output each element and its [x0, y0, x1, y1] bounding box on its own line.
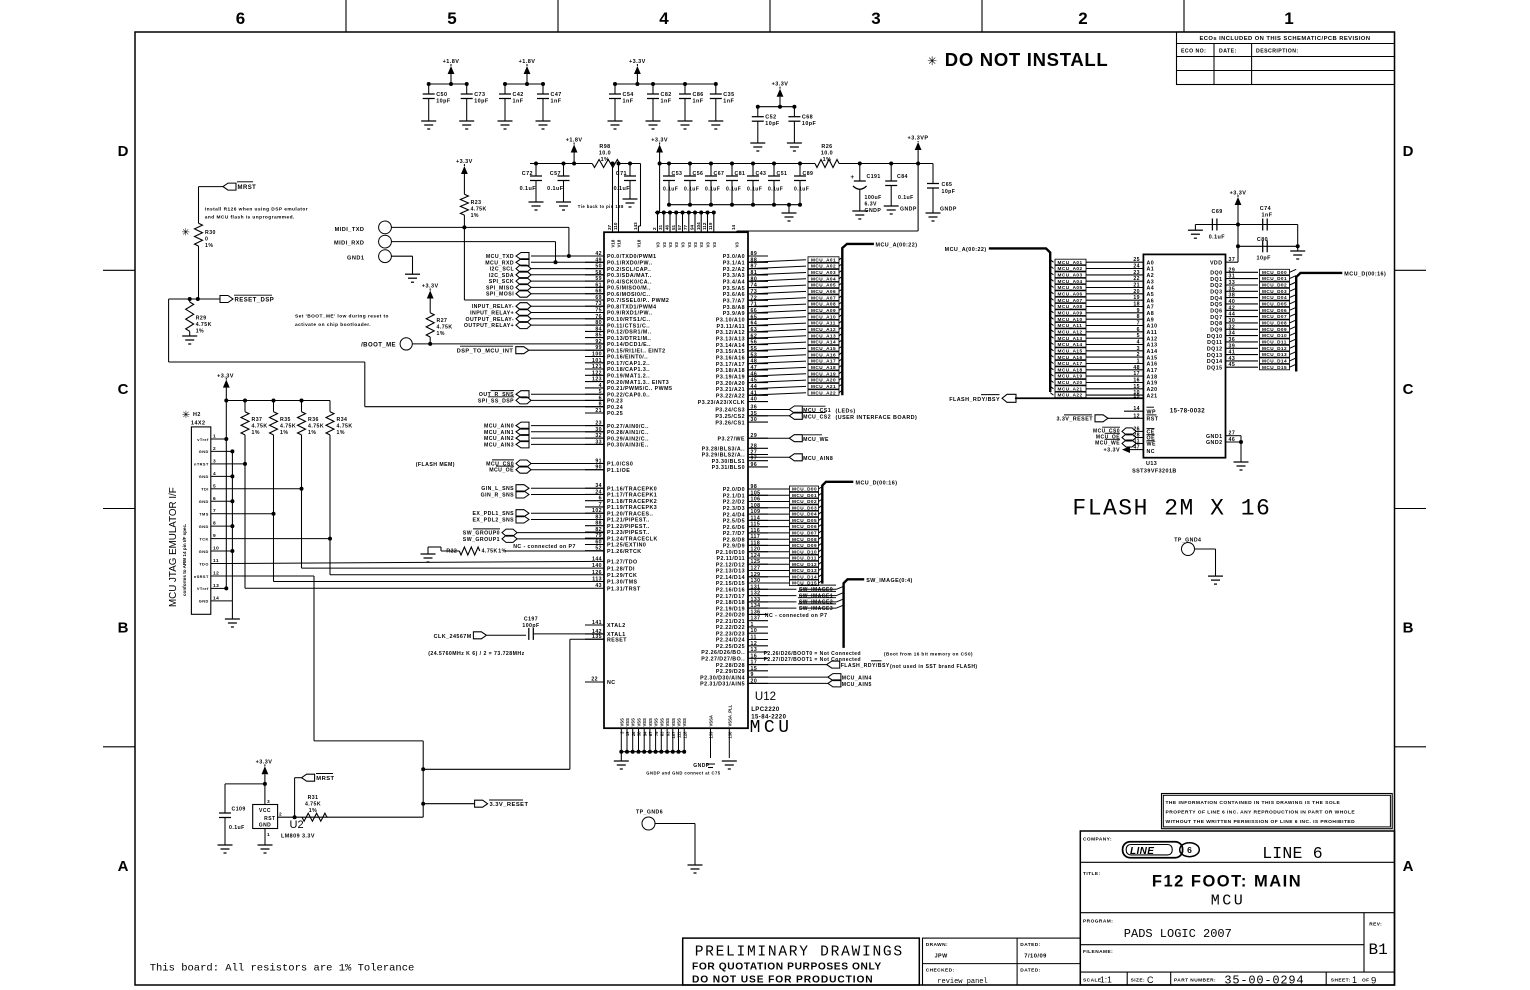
svg-text:46: 46 — [1229, 437, 1236, 443]
pin 113 P1.30/TMS — [592, 577, 637, 586]
pin 100 P0.16 — [585, 352, 648, 361]
svg-text:3.3V_RESET: 3.3V_RESET — [1056, 417, 1093, 423]
svg-text:P0.21/PWM5/C.. PWM5: P0.21/PWM5/C.. PWM5 — [607, 386, 672, 392]
wire TDI JTAG to MCU — [226, 435, 604, 568]
pin 74 P3.5/A5 — [723, 283, 768, 292]
svg-text:R27: R27 — [437, 318, 448, 324]
svg-text:DRAWN:: DRAWN: — [926, 942, 948, 948]
note install R126 — [205, 207, 308, 221]
net label MCU_D04 at MCU — [748, 511, 822, 517]
svg-text:GNDP: GNDP — [900, 207, 917, 213]
net label MCU_A03 — [808, 270, 842, 276]
svg-text:✳: ✳ — [182, 228, 190, 239]
power +3.3V rail with capacitor C52 and capacitor C68 — [750, 82, 816, 151]
svg-text:7: 7 — [599, 502, 602, 508]
net label MCU_A04 — [808, 276, 842, 282]
svg-text:B: B — [1403, 620, 1414, 637]
pin 122 P0.19 — [585, 370, 650, 379]
svg-text:MCU_A05: MCU_A05 — [811, 283, 836, 288]
svg-text:2: 2 — [1137, 352, 1140, 358]
svg-text:A4: A4 — [1147, 286, 1155, 292]
wire pull-up bus — [224, 399, 330, 403]
svg-text:0.1uF: 0.1uF — [229, 825, 245, 831]
pin 21 P0.25 — [585, 408, 623, 417]
svg-text:20: 20 — [1133, 289, 1140, 295]
wire TMS JTAG to MCU — [226, 435, 604, 582]
svg-text:DQ13: DQ13 — [1207, 353, 1223, 359]
net flag FLASH_RDY/BSY at MCU — [748, 661, 978, 670]
svg-text:MCU_OE: MCU_OE — [489, 468, 514, 474]
pin 15 A20 of U13 with net label MCU_A21 — [1050, 384, 1157, 393]
power +1.8V rail with capacitor C42 and capacitor C47 — [498, 59, 562, 129]
svg-text:1nF: 1nF — [661, 99, 672, 105]
svg-text:0.1uF: 0.1uF — [1209, 235, 1226, 241]
svg-text:MCU_D10: MCU_D10 — [1262, 333, 1287, 338]
svg-text:A15: A15 — [1147, 355, 1158, 361]
svg-text:19: 19 — [625, 731, 630, 736]
svg-text:MCU_RXD: MCU_RXD — [485, 260, 514, 266]
svg-text:P1.20/TRACES..: P1.20/TRACES.. — [607, 511, 653, 517]
connector pin GND1 — [347, 250, 391, 263]
pin 68 P0.6 — [585, 289, 650, 298]
svg-text:0.1uF: 0.1uF — [747, 187, 762, 193]
resistor R30 0 ohm with asterisk — [182, 187, 216, 299]
svg-text:OF: OF — [1362, 978, 1370, 984]
pin 33 P0.30 — [585, 439, 649, 448]
svg-text:1%: 1% — [280, 430, 288, 436]
svg-text:4.75K: 4.75K — [305, 801, 321, 807]
pin 11 WE of U13 with net flag MCU_WE — [1095, 439, 1156, 448]
svg-text:P0.25: P0.25 — [607, 411, 623, 417]
svg-text:MIDI_TXD: MIDI_TXD — [335, 227, 365, 233]
resistor R37 4.75K — [241, 401, 268, 437]
svg-text:A20: A20 — [1147, 387, 1158, 393]
wire TDO JTAG to MCU — [226, 561, 604, 563]
svg-text:MCU_A05: MCU_A05 — [1058, 285, 1083, 290]
svg-text:2: 2 — [279, 812, 282, 818]
pin 84 P0.12 — [585, 326, 652, 335]
svg-text:35: 35 — [1229, 286, 1236, 292]
svg-text:DQ3: DQ3 — [1210, 290, 1222, 296]
svg-text:44: 44 — [1229, 312, 1236, 318]
wire TCK JTAG to MCU — [226, 435, 604, 575]
svg-text:MCU_A11: MCU_A11 — [811, 321, 836, 326]
svg-text:P1.30/TMS: P1.30/TMS — [607, 580, 638, 586]
pin 41 DQ13 of U13 with net label MCU_D13 — [1207, 350, 1296, 359]
zone row letters — [118, 143, 1414, 160]
connector H2 14X2 designator — [182, 410, 206, 427]
svg-text:SW_GROUP0: SW_GROUP0 — [463, 531, 500, 537]
svg-text:P3.27/WE: P3.27/WE — [718, 436, 745, 442]
svg-text:MCU_D08: MCU_D08 — [792, 537, 817, 542]
svg-text:FLASH_RDY/BSY: FLASH_RDY/BSY — [949, 397, 1000, 403]
svg-text:MCU_D07: MCU_D07 — [1262, 314, 1287, 319]
svg-text:DQ9: DQ9 — [1210, 328, 1222, 334]
svg-text:4.75K: 4.75K — [482, 549, 498, 555]
power +3.3V for U2 — [256, 760, 273, 805]
svg-text:VSS: VSS — [642, 718, 647, 727]
svg-text:MCU_D02: MCU_D02 — [792, 499, 817, 504]
svg-text:MCU_A10: MCU_A10 — [811, 314, 836, 319]
svg-text:MCU_D10: MCU_D10 — [792, 549, 817, 554]
svg-text:MCU_D11: MCU_D11 — [1262, 340, 1287, 345]
svg-text:9: 9 — [213, 533, 216, 539]
svg-text:P1.29/TCK: P1.29/TCK — [607, 573, 637, 579]
svg-text:MCU_AIN3: MCU_AIN3 — [484, 442, 514, 448]
svg-text:C53: C53 — [672, 171, 683, 177]
svg-text:4.75K: 4.75K — [196, 322, 212, 328]
svg-text:10pF: 10pF — [1257, 256, 1272, 262]
svg-text:MCU_D09: MCU_D09 — [792, 543, 817, 548]
pin 20 P2.31/D31/AIN5 — [700, 678, 768, 687]
net flag OUTPUT_RELAY- — [465, 315, 604, 323]
svg-text:MCU_D12: MCU_D12 — [792, 562, 817, 567]
svg-text:38: 38 — [637, 731, 642, 736]
net label MCU_A11 — [808, 320, 842, 326]
svg-text:MCU_A07: MCU_A07 — [1058, 298, 1083, 303]
svg-text:GND: GND — [199, 474, 209, 479]
svg-text:C51: C51 — [777, 171, 788, 177]
svg-text:MCU_A13: MCU_A13 — [1058, 336, 1083, 341]
svg-text:2: 2 — [652, 227, 657, 230]
svg-text:0.1uF: 0.1uF — [520, 186, 537, 192]
pin 6 A11 of U13 with net label MCU_A12 — [1050, 327, 1157, 336]
note NC connected on P7 right — [765, 613, 828, 619]
svg-text:P2.20/D20: P2.20/D20 — [716, 613, 745, 619]
pin 36 DQ11 of U13 with net label MCU_D11 — [1207, 337, 1296, 346]
resistor R36 4.75K — [298, 401, 325, 437]
svg-text:P3.24/CS3: P3.24/CS3 — [715, 408, 745, 414]
pin 16 P2.27/D27/BO.. — [701, 653, 768, 662]
pin 91 P1.0/CS0 — [585, 459, 633, 468]
svg-text:1nF: 1nF — [723, 99, 734, 105]
svg-text:P0.0/TXD0/PWM1: P0.0/TXD0/PWM1 — [607, 254, 657, 260]
capacitor C72 — [520, 162, 544, 211]
pin 139 VSSA — [693, 715, 715, 769]
information property note box — [1162, 794, 1393, 829]
svg-text:18: 18 — [1133, 302, 1140, 308]
svg-text:H2: H2 — [193, 412, 201, 418]
resistor R27 4.75K with +3.3V — [422, 284, 453, 346]
svg-text:A9: A9 — [1147, 317, 1155, 323]
svg-text:A8: A8 — [1147, 311, 1155, 317]
pin 34 DQ10 of U13 with net label MCU_D10 — [1207, 331, 1296, 340]
pin 22 NC — [585, 677, 616, 687]
svg-text:MCU_D01: MCU_D01 — [1262, 276, 1287, 281]
svg-text:MCU_A18: MCU_A18 — [811, 365, 836, 370]
svg-text:MCU_A04: MCU_A04 — [1058, 279, 1083, 284]
svg-text:16: 16 — [1133, 378, 1140, 384]
pin 58 P0.3 — [585, 270, 652, 279]
net label MCU_A07 — [808, 295, 842, 301]
svg-text:P2.11/D11: P2.11/D11 — [717, 556, 746, 562]
pin 83 P1.21/PIPEST.. — [585, 515, 650, 524]
svg-text:conforms to ARM 14 pin I/F spe: conforms to ARM 14 pin I/F spec. — [182, 524, 187, 596]
svg-text:10pF: 10pF — [765, 121, 780, 127]
text conforms to ARM 14 pin I/F spec rotated — [182, 524, 187, 596]
svg-text:MCU_A16: MCU_A16 — [1058, 355, 1083, 360]
svg-text:14: 14 — [213, 595, 219, 601]
svg-text:U13: U13 — [1146, 461, 1157, 467]
pin 23 A2 of U13 with net label MCU_A03 — [1050, 270, 1154, 279]
svg-text:MCU_D13: MCU_D13 — [792, 568, 817, 573]
svg-text:5: 5 — [447, 9, 456, 28]
svg-text:P0.8/TXD1/PWM4: P0.8/TXD1/PWM4 — [607, 304, 657, 310]
svg-text:79: 79 — [595, 533, 602, 539]
capacitor C57 — [547, 162, 571, 211]
net flag DSP_TO_MCU_INT — [457, 346, 604, 354]
svg-text:6: 6 — [236, 9, 245, 28]
svg-text:P2.7/D7: P2.7/D7 — [723, 531, 745, 537]
net label MCU_D14 at MCU — [748, 574, 822, 580]
svg-text:MRST: MRST — [316, 776, 334, 782]
pin 60 P1.25/EXTIN0 — [585, 540, 646, 549]
svg-text:+3.3VP: +3.3VP — [908, 136, 929, 142]
pin 66 P3.9/A9 — [723, 308, 768, 317]
pin 18 A7 of U13 with net label MCU_A08 — [1050, 302, 1154, 311]
net label MCU_D05 at MCU — [748, 517, 822, 523]
wire MIDI_RXD to MCU_RXD net — [391, 242, 557, 265]
net label MCU_D07 at MCU — [748, 530, 822, 536]
svg-text:C197: C197 — [524, 617, 538, 623]
svg-text:139: 139 — [709, 731, 714, 739]
svg-text:3: 3 — [1137, 346, 1140, 352]
net label MCU_A02 — [808, 263, 842, 269]
svg-text:10.0: 10.0 — [821, 151, 833, 157]
pin 117 P2.8/D8 — [723, 534, 768, 543]
svg-text:P3.18/A18: P3.18/A18 — [716, 368, 745, 374]
svg-text:A3: A3 — [1147, 279, 1155, 285]
wire 0.1uF bank bottom bus and ground — [669, 203, 800, 221]
svg-text:MCU_D09: MCU_D09 — [1262, 327, 1287, 332]
svg-text:2: 2 — [1078, 9, 1087, 28]
svg-text:C191: C191 — [867, 174, 881, 180]
wire MIDI_TXD to MCU_TXD net — [391, 225, 571, 258]
note P2.27 BOOT1 not connected — [764, 657, 861, 663]
svg-text:CLK_24567M: CLK_24567M — [434, 634, 472, 640]
pin 120 P2.10/D10 — [716, 547, 768, 556]
pin 8 P0.24 — [585, 402, 623, 411]
svg-text:MCU_A20: MCU_A20 — [811, 378, 836, 383]
svg-text:143: 143 — [633, 222, 638, 230]
pin 48 P3.17/A17 — [716, 359, 768, 368]
svg-text:P2.9/D9: P2.9/D9 — [723, 544, 745, 550]
svg-text:A18: A18 — [1147, 374, 1158, 380]
svg-text:DQ5: DQ5 — [1210, 302, 1222, 308]
pin 9 P2.30/D30/AIN4 — [700, 672, 768, 681]
svg-text:MCU_A(00:22): MCU_A(00:22) — [945, 247, 987, 253]
svg-text:C72: C72 — [522, 171, 533, 177]
svg-text:GND: GND — [199, 524, 209, 529]
connector pin /BOOT_ME — [361, 338, 604, 350]
net label MCU_A14 — [808, 339, 842, 345]
net flag SPI_SCK — [489, 278, 604, 286]
svg-text:C67: C67 — [714, 171, 725, 177]
net flag SW_GROUP1 — [463, 535, 604, 543]
svg-text:P2.22/D22: P2.22/D22 — [716, 625, 745, 631]
wire GND1 to ground — [391, 256, 420, 282]
note P2.26 BOOT0 not connected — [764, 651, 973, 657]
svg-text:P2.30/D30/AIN4: P2.30/D30/AIN4 — [700, 675, 745, 681]
svg-text:PADS LOGIC 2007: PADS LOGIC 2007 — [1124, 927, 1232, 941]
svg-text:10pF: 10pF — [436, 99, 451, 105]
svg-text:DATE:: DATE: — [1219, 49, 1237, 55]
svg-text:GNDP: GNDP — [940, 207, 957, 213]
pin 6 GND of H2 — [199, 496, 233, 504]
svg-text:MCU_D(00:16): MCU_D(00:16) — [1344, 271, 1386, 277]
pin 6 P0.23 — [585, 395, 623, 404]
svg-text:FILENAME:: FILENAME: — [1083, 949, 1113, 955]
svg-text:P2.27/D27/BO..: P2.27/D27/BO.. — [701, 657, 745, 663]
pin 1 vTref of H2 — [197, 434, 226, 442]
svg-text:A13: A13 — [1147, 343, 1158, 349]
bus SW_IMAGE(0:4) — [844, 578, 913, 648]
pin numbers 37 110 143 — [607, 222, 638, 230]
net flag MCU_CS1 (LEDs) — [748, 406, 856, 415]
svg-text:MCU_A15: MCU_A15 — [1058, 348, 1083, 353]
svg-text:GND: GND — [199, 449, 209, 454]
svg-text:R35: R35 — [280, 417, 291, 423]
net flag OUT_R_SNS — [479, 391, 604, 399]
pin 37 VDD of U13 — [1210, 225, 1238, 267]
svg-text:LM809 3.3V: LM809 3.3V — [281, 834, 315, 840]
svg-text:P2.31/D31/AIN5: P2.31/D31/AIN5 — [700, 682, 745, 688]
pin 10 GND of H2 — [199, 546, 233, 554]
svg-text:1:1: 1:1 — [1100, 975, 1112, 985]
svg-text:93: 93 — [665, 731, 670, 736]
svg-text:37: 37 — [1229, 257, 1236, 263]
wire RESET_DSP to MCU P0.24 — [169, 299, 604, 407]
svg-text:77: 77 — [683, 224, 688, 230]
net label MCU_A20 — [808, 377, 842, 383]
test point TP_GND6 — [636, 810, 703, 874]
svg-text:PART NUMBER:: PART NUMBER: — [1174, 978, 1216, 984]
svg-text:FLASH 2M X 16: FLASH 2M X 16 — [1072, 496, 1271, 522]
svg-text:141: 141 — [592, 620, 602, 626]
svg-text:2: 2 — [213, 446, 216, 452]
svg-text:INPUT_RELAY+: INPUT_RELAY+ — [470, 311, 514, 317]
pin 32 P0.29 — [585, 433, 649, 442]
svg-text:MCU_A07: MCU_A07 — [811, 295, 836, 300]
svg-text:V3: V3 — [656, 242, 661, 248]
svg-text:15: 15 — [1133, 384, 1140, 390]
pin 114 P2.5/D5 — [723, 515, 768, 524]
svg-text:RST: RST — [1147, 417, 1159, 423]
svg-text:P0.4/SCK0/CA..: P0.4/SCK0/CA.. — [607, 279, 652, 285]
svg-text:P1.0/CS0: P1.0/CS0 — [607, 462, 633, 468]
svg-text:LINE 6: LINE 6 — [1262, 844, 1323, 863]
svg-text:83: 83 — [660, 731, 665, 736]
svg-text:✳: ✳ — [182, 410, 190, 421]
pin 137 P2.21/D21 — [716, 616, 768, 625]
svg-text:1%: 1% — [471, 213, 479, 219]
pin 33 DQ2 of U13 with net label MCU_D02 — [1210, 280, 1296, 289]
capacitor C65 — [926, 164, 957, 222]
svg-text:VSSA: VSSA — [709, 715, 714, 726]
svg-text:P2.15/D15: P2.15/D15 — [716, 581, 745, 587]
pin 15 P2.29/D29 — [716, 666, 768, 675]
svg-text:SW_IMAGE3: SW_IMAGE3 — [799, 606, 833, 612]
svg-text:SPI_SS_DSP: SPI_SS_DSP — [478, 398, 514, 404]
svg-text:MCU_A03: MCU_A03 — [1058, 273, 1083, 278]
svg-text:85: 85 — [595, 333, 602, 339]
net flag GIN_L_SNS — [481, 485, 604, 493]
svg-text:REV:: REV: — [1369, 921, 1382, 927]
power +3.3VP symbol — [908, 136, 929, 232]
svg-text:P0.30/AIN3/E..: P0.30/AIN3/E.. — [607, 443, 649, 449]
svg-text:RST: RST — [264, 816, 275, 822]
svg-text:P2.18/D18: P2.18/D18 — [716, 600, 745, 606]
svg-text:VSS: VSS — [625, 718, 630, 727]
svg-text:26: 26 — [1133, 426, 1140, 432]
note crystal frequency — [428, 651, 524, 657]
svg-text:P2.4/D4: P2.4/D4 — [723, 512, 745, 518]
svg-text:4.75K: 4.75K — [471, 207, 487, 213]
svg-text:I2C_SDA: I2C_SDA — [489, 273, 514, 279]
svg-text:C80: C80 — [1257, 237, 1268, 243]
preliminary drawings box — [683, 938, 920, 986]
svg-text:MCU_A09: MCU_A09 — [1058, 310, 1083, 315]
net label MCU_A09 — [808, 307, 842, 313]
svg-text:WITHOUT THE WRITTEN PERMISSION: WITHOUT THE WRITTEN PERMISSION OF LINE 6… — [1166, 819, 1356, 825]
svg-text:P3.14/A14: P3.14/A14 — [716, 343, 745, 349]
pin 41 P3.22/A22 — [716, 390, 768, 399]
svg-text:DQ2: DQ2 — [1210, 283, 1222, 289]
svg-text:P1.26/RTCK: P1.26/RTCK — [607, 549, 642, 555]
net flag CLK_24567M — [434, 632, 526, 640]
pin 34 P1.16/TRACEPK0 — [585, 483, 657, 492]
net label MCU_D03 at MCU — [748, 505, 822, 511]
pin 121 P0.18 — [585, 364, 650, 373]
svg-text:79: 79 — [654, 731, 659, 736]
svg-text:LPC2220: LPC2220 — [751, 707, 780, 713]
pin 71 P3.8/A8 — [723, 302, 768, 311]
pin 10 P2.23/D23 — [716, 628, 768, 637]
svg-text:1: 1 — [267, 832, 270, 838]
svg-text:10: 10 — [213, 546, 219, 552]
pin 89 P3.0/A0 — [723, 251, 768, 260]
svg-text:TITLE:: TITLE: — [1083, 871, 1101, 877]
svg-text:MCU_A22: MCU_A22 — [811, 390, 836, 395]
net flag MCU_OE — [489, 466, 604, 474]
svg-text:10pF: 10pF — [802, 121, 817, 127]
pin 69 P0.7 — [585, 295, 669, 304]
svg-text:P1.25/EXTIN0: P1.25/EXTIN0 — [607, 543, 646, 549]
svg-text:VSS: VSS — [648, 718, 653, 727]
svg-text:ECO NO:: ECO NO: — [1181, 49, 1206, 55]
pin 10 A21 of U13 with net label MCU_A22 — [1050, 390, 1157, 399]
pin 129 P2.14/D14 — [716, 572, 768, 581]
resistor R29 4.75K — [186, 299, 212, 336]
svg-text:MCU_D06: MCU_D06 — [1262, 308, 1287, 313]
resistor R31 4.75K — [302, 795, 423, 821]
svg-text:P0.19/MAT1.2..: P0.19/MAT1.2.. — [607, 374, 650, 380]
pin 40 DQ5 of U13 with net label MCU_D05 — [1210, 299, 1296, 308]
svg-text:MCU_A19: MCU_A19 — [811, 371, 836, 376]
svg-text:MCU JTAG EMULATOR I/F: MCU JTAG EMULATOR I/F — [168, 487, 179, 607]
svg-text:P3.4/A4: P3.4/A4 — [723, 280, 745, 286]
power +1.8V symbol over rail — [566, 138, 583, 166]
note GNDP and GND connect at C75 — [646, 771, 720, 776]
svg-text:DATED:: DATED: — [1020, 942, 1040, 948]
svg-text:54: 54 — [642, 731, 647, 736]
net flag MCU_AIN3 — [484, 441, 604, 449]
pin 24 A1 of U13 with net label MCU_A02 — [1050, 264, 1154, 273]
capacitor C80 10pF — [1238, 225, 1305, 262]
pin 7 A10 of U13 with net label MCU_A11 — [1050, 321, 1157, 330]
capacitor C197 100pF — [522, 617, 604, 640]
svg-text:V18: V18 — [611, 239, 616, 247]
